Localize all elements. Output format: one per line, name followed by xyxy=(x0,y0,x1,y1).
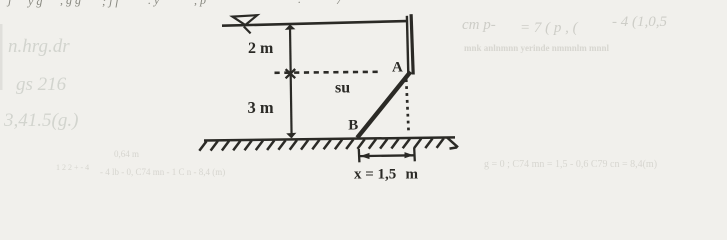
svg-text:. y: . y xyxy=(148,0,160,7)
svg-text:.: . xyxy=(298,0,301,6)
svg-text:3 m: 3 m xyxy=(248,98,274,117)
svg-text:- 4 lb - 0, C74 mn - 1 C n - 8: - 4 lb - 0, C74 mn - 1 C n - 8,4 (m) xyxy=(100,167,225,177)
svg-text:- 4 (1,0,5: - 4 (1,0,5 xyxy=(612,14,667,30)
wall (double line) xyxy=(407,16,408,74)
svg-text:= 7 ( p , (: = 7 ( p , ( xyxy=(520,20,579,36)
svg-text:m: m xyxy=(406,166,419,182)
svg-text:cm p-: cm p- xyxy=(462,17,496,33)
dotted line below A xyxy=(406,79,409,134)
main diagram xyxy=(199,14,458,162)
bottom dimension x = 1,5 m xyxy=(359,148,415,162)
svg-text:n.hrg.dr: n.hrg.dr xyxy=(8,36,70,57)
water surface symbol (free surface nabla) xyxy=(233,15,258,33)
bottom-left faint bleed text xyxy=(56,149,225,177)
right margin handwriting xyxy=(462,14,667,36)
svg-text:mnk anlnmnn yerinde nmmnlm mnn: mnk anlnmnn yerinde nmmnlm mnnl xyxy=(464,43,610,53)
dashed centroid line xyxy=(275,72,381,73)
wire: top water line xyxy=(222,21,407,26)
gate A-B (thick inclined line) xyxy=(357,72,410,138)
svg-text:y g: y g xyxy=(27,0,42,8)
svg-text:, g g: , g g xyxy=(60,0,81,7)
svg-text:g = 0 ; C74 mn = 1,5 - 0,6 C79: g = 0 ; C74 mn = 1,5 - 0,6 C79 cn = 8,4(… xyxy=(484,159,657,170)
node: vertical dimension line xyxy=(290,27,292,138)
svg-text:gs 216: gs 216 xyxy=(16,74,67,95)
faint scan artifacts xyxy=(0,0,667,177)
svg-text:, p: , p xyxy=(194,0,206,7)
svg-text:1 2 2 + - 4: 1 2 2 + - 4 xyxy=(56,163,89,172)
svg-text:A: A xyxy=(392,60,403,76)
arrow down (bottom of 3 m dimension) xyxy=(286,133,296,139)
svg-text:7: 7 xyxy=(336,0,343,7)
svg-text:x = 1,5: x = 1,5 xyxy=(354,166,396,182)
X marker between 2 m and 3 m xyxy=(286,69,296,78)
left margin handwriting xyxy=(3,36,78,131)
ground hatching xyxy=(199,138,458,151)
svg-text:2 m: 2 m xyxy=(248,40,274,57)
svg-text:3,41.5(g.): 3,41.5(g.) xyxy=(3,110,78,131)
left edge smudge xyxy=(0,24,3,90)
arrow up (top of 2 m dimension) xyxy=(285,24,296,30)
svg-text:0,64 m: 0,64 m xyxy=(114,149,139,159)
top edge squiggle fragments xyxy=(6,0,343,8)
svg-text:; j f: ; j f xyxy=(102,0,120,8)
blurred printed band right xyxy=(464,43,610,53)
labels xyxy=(248,40,419,182)
svg-text:su: su xyxy=(335,79,350,96)
svg-text:B: B xyxy=(348,117,358,133)
bottom-right faint text xyxy=(484,159,657,170)
ground line xyxy=(204,137,455,140)
